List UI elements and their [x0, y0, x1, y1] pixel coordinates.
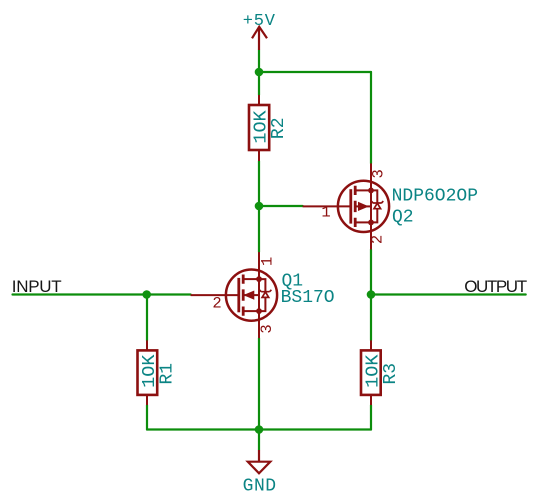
svg-text:3: 3	[369, 169, 387, 178]
svg-text:R1: R1	[158, 363, 178, 385]
svg-text:R2: R2	[269, 117, 289, 139]
svg-text:Q2: Q2	[392, 208, 414, 228]
svg-text:GND: GND	[243, 477, 277, 497]
svg-text:NDP6O2OP: NDP6O2OP	[392, 187, 478, 207]
svg-text:R3: R3	[381, 363, 401, 385]
svg-text:3: 3	[258, 324, 276, 333]
svg-text:INPUT: INPUT	[12, 277, 62, 296]
svg-text:+5V: +5V	[243, 12, 276, 31]
svg-text:2: 2	[212, 295, 221, 313]
svg-text:1: 1	[259, 257, 277, 266]
svg-text:1: 1	[321, 204, 330, 222]
svg-text:BS17O: BS17O	[281, 288, 335, 308]
svg-text:OUTPUT: OUTPUT	[464, 277, 527, 296]
svg-text:2: 2	[369, 235, 387, 244]
